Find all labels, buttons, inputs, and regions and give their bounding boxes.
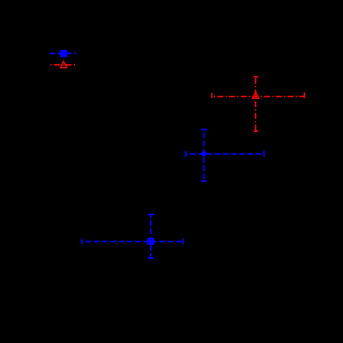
- blue point 2 vertical line: [150, 215, 152, 259]
- blue point 2 horizontal line: [82, 241, 183, 243]
- blue point 1 left cap: [185, 151, 187, 157]
- blue point 2 bottom cap: [148, 257, 154, 259]
- blue point 1 top cap: [201, 129, 207, 131]
- red errorbar vertical line: [255, 77, 257, 131]
- blue point 2 top cap: [148, 214, 154, 216]
- blue point 2 right cap: [182, 239, 184, 244]
- blue point 1 right cap: [263, 151, 265, 157]
- red top cap: [254, 76, 258, 78]
- red errorbar horizontal line: [212, 96, 304, 98]
- legend blue dashed line: [50, 52, 76, 54]
- red left cap: [211, 93, 213, 98]
- red right cap: [303, 92, 305, 98]
- blue point 2 left cap: [81, 239, 83, 244]
- blue point 1 horizontal line: [186, 153, 264, 155]
- blue point 1 vertical line: [203, 130, 205, 182]
- legend red dash-dot line: [50, 64, 76, 66]
- legend red open triangle marker: [59, 60, 67, 68]
- red bottom cap: [254, 130, 258, 132]
- blue point 1 bottom cap: [201, 180, 207, 182]
- blue point 1 diamond marker: [200, 150, 207, 157]
- blue point 2 square marker: [147, 238, 154, 245]
- red open triangle marker: [251, 91, 259, 99]
- legend blue square marker: [60, 50, 67, 57]
